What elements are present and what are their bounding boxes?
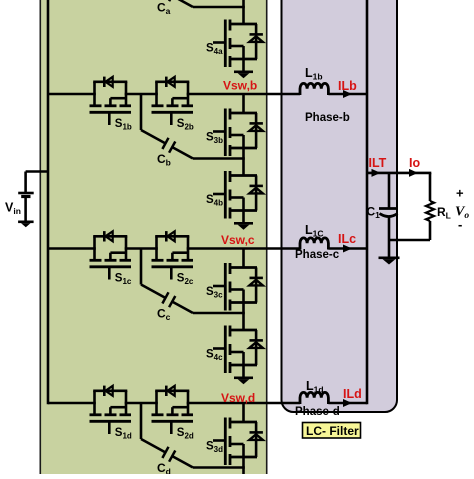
- svg-text:ILT: ILT: [369, 156, 387, 170]
- svg-text:Phase-b: Phase-b: [305, 112, 350, 124]
- svg-text:Vsw,c: Vsw,c: [221, 233, 255, 247]
- svg-text:Vsw,d: Vsw,d: [221, 391, 255, 405]
- svg-text:Phase-d: Phase-d: [295, 406, 340, 418]
- svg-text:+: +: [456, 186, 464, 201]
- svg-text:Io: Io: [409, 156, 420, 170]
- svg-text:-: -: [458, 217, 462, 232]
- svg-text:Vsw,b: Vsw,b: [223, 79, 257, 93]
- svg-text:ILc: ILc: [338, 232, 356, 246]
- svg-text:Phase-c: Phase-c: [295, 249, 340, 261]
- svg-text:ILd: ILd: [343, 387, 362, 401]
- svg-text:LC- Filter: LC- Filter: [306, 424, 359, 438]
- svg-text:ILb: ILb: [338, 79, 357, 93]
